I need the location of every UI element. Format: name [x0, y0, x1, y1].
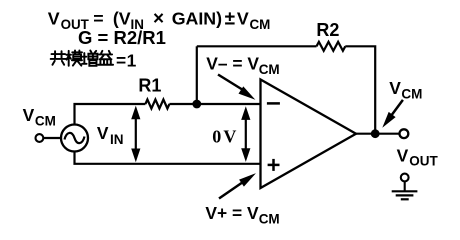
svg-text:V: V: [97, 123, 109, 143]
svg-text:V: V: [223, 127, 236, 147]
wire: R2 to feedback corner: [345, 46, 375, 133]
svg-text:(V: (V: [113, 8, 131, 28]
svg-text:R2: R2: [316, 20, 339, 40]
wire: bottom rail from source to op-amp non-inverting input: [75, 151, 261, 164]
op-amp U1 triangle: [261, 80, 357, 189]
label: VOUT: [397, 145, 439, 168]
svg-text:=: =: [93, 8, 103, 28]
wire: feedback top rail to R2: [197, 45, 317, 47]
terminal: VOUT output port: [400, 129, 409, 138]
ground: [392, 174, 418, 200]
label: VCM at output: [389, 78, 422, 101]
op-amp inverting pin minus sign: [267, 102, 280, 105]
svg-text:0: 0: [212, 127, 221, 147]
label: formula line 1 VOUT = (VIN x GAIN) +/- VCM: [48, 8, 271, 32]
svg-text:CM: CM: [250, 17, 271, 32]
label: VIN: [97, 123, 124, 147]
svg-text:CM: CM: [259, 62, 280, 77]
svg-text:R1: R1: [138, 76, 161, 96]
CJK char yi: [98, 51, 113, 65]
svg-text:V: V: [397, 145, 409, 165]
svg-text:=: =: [116, 50, 126, 70]
svg-text:CM: CM: [35, 113, 56, 128]
CJK char zeng: [82, 51, 97, 66]
label: V+ = VCM: [205, 203, 279, 227]
label: line 3 Chinese "common-mode gain = 1": [51, 51, 113, 66]
svg-text:V– = V: V– = V: [206, 53, 259, 73]
svg-text:IN: IN: [110, 132, 124, 147]
wire: top rail from source to R1: [75, 104, 146, 125]
annotation arrow: VCM label to output node: [382, 100, 403, 128]
wire: feedback vertical up from node A: [196, 46, 198, 104]
measurement arrow 0V (double-headed): [241, 106, 250, 162]
label: V- = VCM: [206, 53, 279, 77]
svg-text:V: V: [48, 8, 60, 28]
node A junction dot (inverting input node): [192, 100, 201, 109]
svg-text:V: V: [237, 8, 249, 28]
measurement arrow VIN (double-headed): [131, 106, 140, 163]
svg-text:CM: CM: [259, 212, 280, 227]
resistor R2: [317, 42, 346, 51]
svg-text:V: V: [389, 78, 401, 98]
label: VCM at input: [23, 105, 56, 129]
svg-text:V: V: [23, 105, 35, 125]
label: 0 V: [212, 127, 236, 147]
svg-text:G = R2/R1: G = R2/R1: [78, 27, 166, 48]
wire: input terminal to source: [44, 137, 62, 139]
svg-text:GAIN): GAIN): [172, 8, 222, 28]
terminal: VCM input port: [36, 134, 44, 142]
svg-text:CM: CM: [401, 86, 422, 101]
resistor R1: [145, 100, 169, 109]
CJK char gong: [51, 51, 66, 65]
svg-text:OUT: OUT: [409, 154, 438, 169]
CJK char mo: [66, 51, 82, 66]
label: = 1 after Chinese: [116, 50, 137, 70]
node B junction dot (output node): [371, 129, 380, 138]
svg-text:±: ±: [225, 8, 235, 29]
annotation arrow: V+ label to non-inverting input: [219, 173, 256, 198]
annotation arrow: V- label to inverting input: [218, 75, 255, 100]
svg-text:V+ = V: V+ = V: [205, 203, 259, 223]
svg-text:1: 1: [127, 50, 137, 70]
source V1 (AC source VCM): [61, 125, 88, 152]
wire: op-amp output to terminal: [356, 133, 399, 135]
wire: R1 to op-amp inverting input: [169, 103, 260, 105]
op-amp non-inverting pin plus sign: [268, 159, 280, 171]
